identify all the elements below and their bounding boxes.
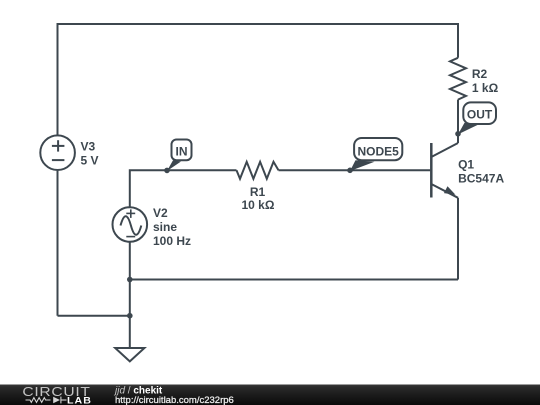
svg-text:http://circuitlab.com/c232rp6: http://circuitlab.com/c232rp6 [115, 395, 234, 405]
svg-text:OUT: OUT [467, 108, 493, 122]
wire emitter return horizontal [130, 279, 458, 281]
node IN dot [164, 168, 170, 174]
svg-text:100 Hz: 100 Hz [153, 234, 191, 248]
resistor R2 labels [472, 67, 499, 95]
svg-text:Q1: Q1 [458, 158, 474, 172]
svg-text:LAB: LAB [67, 396, 92, 405]
resistor R1 labels [242, 185, 275, 212]
junction dot bottom node 2 [127, 313, 133, 319]
wire bottom left horizontal [58, 315, 130, 317]
resistor R2 [450, 58, 466, 100]
svg-text:10 kΩ: 10 kΩ [242, 198, 275, 212]
node NODE5 tail [350, 160, 375, 171]
wire emitter vertical [457, 198, 459, 280]
node OUT label [463, 102, 496, 124]
svg-text:V2: V2 [153, 206, 168, 220]
footer logo schematic [26, 397, 67, 404]
svg-text:5 V: 5 V [81, 153, 99, 167]
node NODE5 dot [347, 168, 353, 174]
svg-text:V3: V3 [81, 139, 96, 153]
resistor R1 [237, 162, 279, 179]
wire V2 bottom to ground [129, 242, 131, 348]
node OUT dot [455, 131, 461, 137]
source V2 [113, 207, 148, 242]
svg-text:sine: sine [153, 220, 177, 234]
source V3 labels [81, 139, 99, 167]
node OUT tail [458, 123, 479, 135]
node NODE5 label [354, 138, 402, 160]
svg-text:NODE5: NODE5 [358, 144, 400, 158]
source V3 [40, 135, 75, 170]
transistor Q1 [431, 143, 458, 198]
transistor Q1 emitter arrow [444, 186, 456, 195]
source V2 labels [153, 206, 191, 248]
svg-text:R1: R1 [250, 185, 266, 199]
svg-text:BC547A: BC547A [458, 171, 504, 185]
ground [115, 348, 144, 361]
wire from V2 top up and right to R1 (node IN) [130, 170, 237, 207]
svg-text:IN: IN [176, 144, 188, 158]
junction dot bottom node 1 [127, 277, 133, 283]
svg-text:1 kΩ: 1 kΩ [472, 81, 499, 95]
transistor Q1 labels [458, 158, 504, 186]
wire V3 bottom vertical [57, 171, 59, 316]
wire collector vertical [457, 100, 459, 143]
node IN label [172, 140, 192, 161]
svg-text:R2: R2 [472, 67, 488, 81]
wire from V3 top across the top to R2 top [58, 24, 459, 135]
node IN tail [167, 160, 181, 171]
wire from R1 to Q1 base (node NODE5) [279, 169, 431, 171]
footer bar [0, 385, 540, 405]
